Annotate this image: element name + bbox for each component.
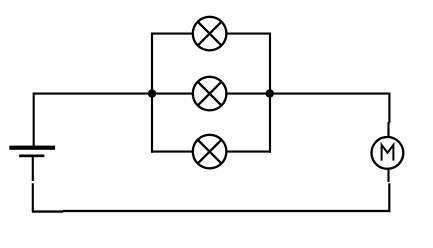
wire battery top to middle-left horizontal <box>34 94 152 146</box>
battery short plate (negative) <box>19 155 44 158</box>
wire bottom return main run <box>63 210 391 212</box>
wire right bus vertical <box>269 33 271 153</box>
battery long plate (positive) <box>9 146 55 150</box>
wire middle row right stub <box>226 93 272 95</box>
node left junction <box>148 89 157 98</box>
motor label M <box>382 145 394 161</box>
wire motor top lead lower segment <box>387 122 389 137</box>
wire middle row left stub <box>151 93 194 95</box>
wire motor top lead upper segment <box>388 93 390 123</box>
wire battery bottom lead upper segment <box>32 156 34 182</box>
motor M1 <box>372 137 404 169</box>
wire motor bottom lead lower segment <box>388 183 390 212</box>
battery cell B1 <box>9 146 55 158</box>
wire top row right stub <box>226 33 272 35</box>
lamp L3 (bottom) <box>193 135 227 169</box>
lamp L2 (middle) <box>193 77 227 111</box>
wire bottom row left stub <box>151 151 194 153</box>
node right junction <box>266 89 275 98</box>
lamp L1 (top) <box>193 17 227 51</box>
wire bottom row right stub <box>226 151 272 153</box>
wire left bus vertical <box>151 33 153 153</box>
wire right horizontal to motor branch <box>269 93 388 95</box>
wire battery bottom lead lower segment <box>32 183 34 212</box>
wire top row left stub <box>151 33 194 35</box>
wire motor bottom lead upper segment <box>387 169 389 182</box>
wire bottom return left stub <box>32 210 63 212</box>
